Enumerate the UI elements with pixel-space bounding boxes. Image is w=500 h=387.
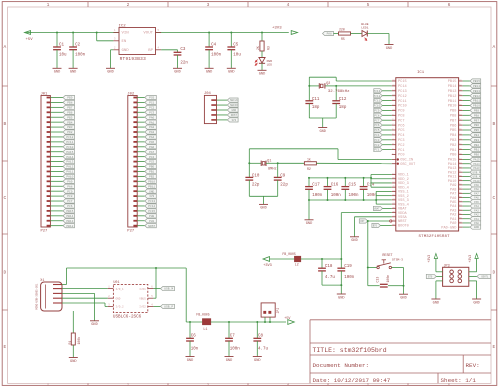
svg-text:PB14: PB14 (66, 215, 73, 218)
svg-text:C16: C16 (331, 184, 339, 188)
svg-text:OSC_OUT: OSC_OUT (400, 163, 416, 167)
svg-text:R1: R1 (68, 341, 72, 345)
svg-text:PB10: PB10 (448, 105, 457, 109)
wire reset left leg (368, 268, 380, 286)
svg-text:J01: J01 (41, 92, 49, 96)
svg-text:6: 6 (448, 2, 451, 8)
svg-text:C18: C18 (325, 265, 333, 269)
svg-text:32.768kHz: 32.768kHz (328, 89, 350, 94)
svg-text:PB11: PB11 (473, 100, 480, 103)
svg-text:A: A (493, 44, 496, 50)
svg-text:L2: L2 (295, 264, 299, 268)
svg-text:3V3: 3V3 (149, 195, 154, 198)
svg-text:C12: C12 (339, 98, 347, 102)
wire C8 to ground (256, 341, 258, 357)
svg-text:C3: C3 (180, 48, 186, 52)
svg-text:4: 4 (158, 47, 160, 50)
svg-text:P27: P27 (41, 230, 48, 234)
svg-text:PC4: PC4 (149, 156, 154, 159)
wire L1 to +5V arrow (211, 321, 286, 323)
svg-text:PC6: PC6 (67, 205, 72, 208)
svg-text:4.7u: 4.7u (258, 348, 269, 352)
svg-text:PB7: PB7 (450, 119, 456, 123)
ground LED1 (385, 45, 394, 51)
svg-text:I/O_2: I/O_2 (116, 305, 124, 309)
svg-text:PB7: PB7 (67, 106, 72, 109)
wire 32k top rail (309, 77, 336, 101)
capacitor C7 (225, 334, 240, 351)
svg-text:PC6: PC6 (374, 124, 379, 127)
resistor R1 (68, 333, 81, 345)
capacitor C9 (274, 174, 289, 187)
pin OSC_OUT dot (397, 163, 399, 165)
svg-text:GND: GND (351, 239, 357, 243)
svg-text:100n: 100n (230, 348, 241, 352)
inductor L2 ferrite FB_0805 (282, 252, 300, 267)
wire 3V3 rail to L2 (270, 258, 295, 260)
svg-text:GND: GND (122, 49, 130, 53)
svg-text:PB12: PB12 (473, 95, 480, 98)
wire decoupling ground tap (308, 200, 310, 220)
svg-text:PC8: PC8 (374, 114, 379, 117)
svg-text:PC3: PC3 (374, 139, 379, 142)
svg-text:3: 3 (114, 38, 116, 41)
connector JP3 boot jumper (443, 265, 469, 287)
svg-text:PC1: PC1 (149, 102, 154, 105)
svg-text:PB2: PB2 (450, 144, 456, 148)
svg-text:PC10: PC10 (398, 105, 407, 109)
wire 8M top rail (249, 149, 338, 178)
svg-text:PA8: PA8 (67, 185, 72, 188)
svg-text:PC6: PC6 (398, 124, 404, 128)
svg-text:100n: 100n (344, 276, 355, 280)
svg-text:PC7: PC7 (398, 119, 404, 123)
node IC1 left net labels PC13-PC1 (374, 89, 392, 152)
svg-text:+3V3: +3V3 (427, 255, 431, 263)
LED D3 power (255, 58, 272, 67)
svg-text:BOOT1: BOOT1 (481, 276, 489, 279)
svg-text:PA14: PA14 (473, 163, 480, 166)
supply +3V3 arrow JP3 left (427, 254, 443, 272)
wire decoupling top rail (309, 177, 371, 179)
ground C18 C19 (337, 294, 346, 300)
svg-text:PB9: PB9 (450, 110, 456, 114)
wire R2 to OSC_OUT (316, 162, 391, 164)
svg-text:TITLE: stm32f105brd: TITLE: stm32f105brd (313, 347, 387, 354)
svg-text:PB9: PB9 (474, 110, 479, 113)
svg-text:100n: 100n (331, 194, 342, 198)
wire VBUS up (62, 268, 67, 285)
svg-text:C6: C6 (191, 334, 197, 338)
wire 32k bottom rail (309, 104, 336, 128)
svg-text:GND: GND (228, 71, 234, 75)
wire USB GND (62, 293, 95, 320)
wire VDDA (341, 213, 392, 259)
svg-text:X1: X1 (40, 279, 44, 283)
svg-text:5: 5 (151, 295, 153, 298)
svg-text:2: 2 (127, 2, 130, 8)
node NRST flag (359, 219, 389, 223)
svg-text:GND: GND (54, 71, 60, 75)
wire NRST down to reset (367, 221, 369, 269)
svg-text:IC1: IC1 (417, 71, 425, 75)
svg-text:PA7: PA7 (474, 192, 479, 195)
svg-text:IC2: IC2 (119, 25, 127, 29)
svg-text:USB_M: USB_M (473, 176, 481, 179)
capacitor C16 (324, 184, 342, 198)
svg-text:PB5: PB5 (67, 116, 72, 119)
capacitor C8 (253, 334, 268, 351)
svg-text:PB14: PB14 (473, 85, 480, 88)
svg-text:NRST: NRST (231, 114, 238, 117)
svg-text:I/O1: I/O1 (139, 287, 146, 291)
svg-text:PA10: PA10 (66, 175, 73, 178)
svg-text:B: B (4, 121, 7, 127)
svg-text:C1: C1 (59, 44, 65, 48)
svg-text:U01: U01 (113, 281, 119, 285)
capacitor C5 (227, 44, 241, 58)
svg-text:GND: GND (232, 109, 237, 112)
svg-text:C2: C2 (75, 44, 81, 48)
capacitor C10 (245, 174, 260, 187)
wire C17 drops (308, 177, 310, 201)
wire X1 shell to R1 (72, 311, 74, 333)
svg-text:PA1: PA1 (474, 218, 479, 221)
svg-text:PB6: PB6 (450, 124, 456, 128)
wire Q1 to R2 (278, 162, 305, 164)
frame column labels bottom (47, 383, 450, 386)
wire C19 to ground (340, 271, 342, 294)
svg-text:2K: 2K (256, 46, 260, 50)
wire decoupling bottom rail (309, 199, 376, 201)
ground C3 (173, 68, 182, 74)
svg-text:GND: GND (174, 71, 180, 75)
svg-text:J04: J04 (204, 92, 212, 96)
pin OSC_IN dot (397, 158, 399, 160)
wire JP3 left ground (436, 281, 443, 299)
wire C19 drop (340, 259, 342, 268)
svg-text:PB2: PB2 (149, 175, 154, 178)
wire C6 to ground (189, 341, 191, 357)
svg-text:PB5: PB5 (450, 129, 456, 133)
wire 8M bottom rail (249, 180, 277, 204)
svg-text:PC5: PC5 (374, 129, 379, 132)
connector J04 header (204, 92, 217, 123)
svg-text:C9: C9 (280, 174, 286, 178)
svg-text:C15: C15 (349, 184, 357, 188)
ground X1 (90, 321, 99, 327)
svg-text:JP2: JP2 (276, 308, 280, 314)
svg-text:PC14: PC14 (148, 205, 155, 208)
svg-text:PC11: PC11 (374, 100, 381, 103)
svg-text:22p: 22p (280, 184, 288, 188)
ground IC2 (106, 68, 115, 74)
svg-text:PB15: PB15 (448, 80, 457, 84)
wire C7 to ground (228, 341, 230, 357)
svg-text:JP3: JP3 (444, 265, 450, 269)
svg-text:PA13: PA13 (66, 161, 73, 164)
svg-text:USB_P: USB_P (473, 171, 481, 174)
wire OSC32 to PC14 (308, 85, 392, 101)
wire J02 pin nets (137, 98, 145, 226)
svg-text:PC2: PC2 (374, 144, 379, 147)
capacitor C11 (305, 98, 320, 110)
svg-text:PC7: PC7 (374, 119, 379, 122)
svg-text:PB3: PB3 (450, 139, 456, 143)
wire LED to ground (261, 63, 263, 70)
node BOOT0 flag (372, 223, 392, 227)
svg-text:GND: GND (107, 71, 113, 75)
svg-text:PA1: PA1 (149, 121, 154, 124)
wire IC2 GND down (111, 50, 114, 69)
wire VDD comb (370, 175, 392, 188)
svg-text:R2: R2 (307, 167, 311, 171)
svg-text:C7: C7 (230, 334, 236, 338)
wire VBUS rail (67, 267, 187, 269)
svg-text:GND: GND (400, 297, 406, 301)
ground C2 (69, 68, 78, 74)
svg-text:REV:: REV: (466, 362, 480, 369)
svg-text:PC0: PC0 (149, 97, 154, 100)
svg-text:PC1: PC1 (374, 149, 379, 152)
svg-text:GND: GND (91, 323, 97, 327)
svg-text:PB8: PB8 (67, 102, 72, 105)
wire C5 drop (230, 32, 232, 48)
IC1 left pin stubs (392, 81, 396, 225)
svg-text:PC15: PC15 (398, 80, 407, 84)
svg-text:PC10: PC10 (374, 105, 381, 108)
svg-text:L1: L1 (203, 328, 207, 332)
svg-text:PC9: PC9 (374, 110, 379, 113)
svg-text:PA3: PA3 (149, 131, 154, 134)
svg-text:PC11: PC11 (398, 100, 407, 104)
svg-text:PA9: PA9 (474, 184, 479, 187)
svg-text:PB15: PB15 (473, 80, 480, 83)
svg-text:D: D (4, 270, 7, 276)
svg-text:PB3: PB3 (67, 126, 72, 129)
capacitor C3 (174, 48, 189, 66)
supply +3V3 arrow left (263, 257, 272, 268)
IC1 left pin names (398, 80, 416, 228)
svg-text:PA12: PA12 (66, 166, 73, 169)
svg-text:4: 4 (287, 2, 290, 8)
svg-text:PC2: PC2 (398, 144, 404, 148)
wire R5 to LED1 (351, 33, 363, 35)
svg-text:100n: 100n (349, 194, 360, 198)
svg-text:STM32F105R8T: STM32F105R8T (419, 235, 451, 239)
wire BP to C3 (161, 50, 177, 53)
svg-text:18p: 18p (312, 106, 320, 110)
wire +3V3 bus right of IC2 (156, 32, 289, 34)
wire flag to R5 (334, 33, 339, 35)
svg-text:USBLC6-2SC6: USBLC6-2SC6 (113, 315, 142, 320)
svg-text:GND: GND (206, 71, 212, 75)
ground decoupling (305, 220, 314, 226)
svg-text:RST: RST (360, 220, 365, 223)
svg-text:PC14: PC14 (398, 85, 407, 89)
svg-text:PB1: PB1 (474, 149, 479, 152)
svg-text:PC10: PC10 (66, 146, 73, 149)
connector J02 pin header (127, 92, 137, 233)
node J01 net labels (63, 95, 75, 227)
svg-text:GND: GND (149, 190, 154, 193)
svg-text:PA4: PA4 (149, 136, 154, 139)
svg-text:GND: GND (473, 301, 479, 305)
node J02 net labels (145, 95, 157, 227)
svg-text:PB8: PB8 (450, 115, 456, 119)
node IC1 right net labels PA (463, 157, 481, 229)
node USB_M flag (153, 287, 174, 291)
svg-text:J02: J02 (127, 92, 135, 96)
svg-text:PB11: PB11 (148, 185, 155, 188)
svg-text:PA11: PA11 (66, 171, 73, 174)
svg-text:PA13: PA13 (473, 167, 480, 170)
capacitor C17 (305, 184, 323, 198)
svg-text:C: C (493, 195, 496, 201)
svg-text:PB1: PB1 (149, 171, 154, 174)
svg-text:+5V: +5V (284, 317, 291, 321)
svg-text:PB11: PB11 (448, 100, 457, 104)
IC1 right pin names (441, 80, 456, 230)
inductor L1 ferrite FB_0805 (196, 313, 210, 332)
svg-text:4.7u: 4.7u (325, 276, 336, 280)
resistor R2 (304, 158, 316, 171)
svg-text:PC8: PC8 (398, 115, 404, 119)
connector J01 pin header (41, 92, 51, 233)
svg-text:GND: GND (187, 359, 193, 363)
capacitor C19 (337, 265, 354, 280)
svg-text:Date: 10/12/2017 09:47: Date: 10/12/2017 09:47 (313, 377, 391, 384)
IC1 pin numbers (392, 79, 462, 226)
wire USB ID jog (62, 303, 108, 306)
svg-text:C17: C17 (312, 184, 320, 188)
svg-text:GND: GND (259, 73, 265, 77)
wire C14 drops (363, 177, 365, 201)
svg-text:PC4: PC4 (374, 134, 379, 137)
svg-text:PC8: PC8 (67, 195, 72, 198)
svg-text:PA15: PA15 (473, 159, 480, 162)
svg-text:PA6: PA6 (474, 197, 479, 200)
wire USB D+ to U01 (62, 297, 108, 299)
svg-text:PB6: PB6 (474, 124, 479, 127)
wire rail to L1 (186, 321, 202, 323)
svg-text:220: 220 (339, 28, 345, 32)
svg-text:GND: GND (116, 297, 121, 300)
svg-text:PB14: PB14 (448, 85, 457, 89)
capacitor C4 (205, 44, 221, 58)
ground D3 (258, 70, 267, 76)
ground reset (399, 294, 408, 300)
ground 8M (259, 204, 268, 210)
junction NRST circle (390, 220, 392, 222)
svg-text:GND: GND (306, 222, 312, 226)
wire C18 bottom (322, 271, 341, 285)
svg-text:PH0: PH0 (149, 215, 154, 218)
wire C1 to ground (56, 50, 58, 69)
svg-text:100n: 100n (211, 53, 222, 57)
svg-text:USB_M: USB_M (164, 288, 173, 291)
svg-text:PA9: PA9 (67, 180, 72, 183)
svg-text:NRST: NRST (148, 225, 155, 228)
wire J01 pin nets (50, 98, 63, 226)
svg-text:PB13: PB13 (473, 90, 480, 93)
svg-text:C: C (4, 195, 7, 201)
capacitor C2 (69, 44, 85, 58)
svg-text:GND: GND (338, 296, 344, 300)
crystal Q1 8MHz (248, 160, 278, 172)
svg-text:PA0: PA0 (149, 116, 154, 119)
svg-text:GND: GND (226, 359, 232, 363)
wire C15 drops (344, 177, 346, 201)
svg-text:GND: GND (70, 71, 76, 75)
svg-text:C11: C11 (312, 98, 320, 102)
IC1 right pin stubs (459, 81, 463, 227)
capacitor C13 (375, 275, 390, 287)
wire VSSA to ground (355, 217, 392, 237)
node PA8 net flag (323, 31, 334, 35)
svg-text:Document Number:: Document Number: (313, 362, 370, 369)
svg-text:100n: 100n (312, 194, 323, 198)
svg-text:A: A (4, 44, 7, 50)
svg-text:PA2: PA2 (149, 126, 154, 129)
ground C7 (225, 357, 234, 363)
svg-text:+5V: +5V (26, 38, 34, 42)
svg-text:1: 1 (108, 286, 110, 289)
svg-text:PA7: PA7 (149, 151, 154, 154)
svg-text:+3V3: +3V3 (263, 264, 272, 268)
ground R1 (69, 358, 78, 364)
svg-text:VIN: VIN (122, 32, 130, 36)
capacitor C6 (186, 334, 199, 351)
wire +5V bus left (32, 32, 120, 34)
node J04 net labels (227, 98, 238, 122)
wire VBUS down to L1 rail (185, 268, 187, 322)
svg-text:PB13: PB13 (448, 90, 457, 94)
wire OSC32 to PC15 (336, 80, 392, 82)
svg-text:PAD-GND: PAD-GND (441, 226, 456, 230)
wire VBUS to U01 (155, 268, 157, 298)
svg-text:LED: LED (267, 63, 273, 66)
wire USB D- to U01 (62, 288, 108, 290)
wire reset right leg (388, 268, 405, 295)
svg-text:PB12: PB12 (448, 95, 457, 99)
svg-text:PC13: PC13 (148, 200, 155, 203)
svg-text:PC15: PC15 (148, 210, 155, 213)
wire R3 drop (261, 32, 263, 42)
svg-text:PC7: PC7 (67, 200, 72, 203)
svg-text:PA4: PA4 (474, 205, 479, 208)
supply +3V3 arrow top (272, 26, 298, 34)
wire U01 VBUS stub (153, 297, 156, 299)
wire JP2 pins down (265, 317, 270, 322)
supply +5V arrow right (284, 317, 294, 324)
wire VSS comb (375, 191, 392, 204)
wire to OSC_IN (338, 159, 392, 161)
wire C1 drop (56, 32, 58, 48)
wire C8 drop (256, 322, 258, 338)
svg-text:EN: EN (122, 40, 127, 44)
svg-text:PB6: PB6 (67, 111, 72, 114)
svg-text:PB0: PB0 (474, 154, 479, 157)
frame row labels (4, 44, 496, 350)
svg-text:PC5: PC5 (149, 161, 154, 164)
svg-text:5: 5 (158, 29, 160, 32)
svg-text:PB15: PB15 (66, 210, 73, 213)
ground C5 (227, 68, 236, 74)
svg-text:1k: 1k (307, 158, 311, 162)
svg-text:+3V3: +3V3 (272, 26, 282, 30)
wire R1 to ground (72, 345, 74, 358)
